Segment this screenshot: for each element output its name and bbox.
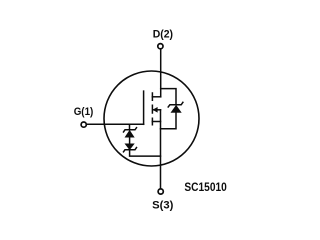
svg-text:SC15010: SC15010 [184,180,227,194]
svg-text:S(3): S(3) [152,199,174,211]
terminal D pin circle [158,44,163,49]
svg-text:G(1): G(1) [74,106,94,118]
zener diode D1 triangle [171,105,181,112]
wire clamp middle [129,137,131,144]
transistor Q1 gate bar [143,91,145,124]
transistor Q1 source stub [152,121,160,123]
zener diode D2 cathode bar [124,128,137,132]
wire gate horizontal [87,123,144,125]
transistor Q1 body stub [153,109,160,111]
wire zener bottom [161,112,177,129]
wire source vertical [160,110,162,188]
transistor Q1 drain stub [152,96,160,98]
transistor Q1 channel segments [151,93,153,125]
wire zener top branch [161,89,176,104]
svg-text:D(2): D(2) [153,28,174,40]
wire clamp bottom [130,150,161,156]
terminal S pin circle [158,189,163,194]
terminal G pin circle [81,122,86,127]
zener diode D3 cathode bar [124,148,137,152]
transistor Q1 body arrow [153,108,157,113]
device outline circle [104,71,199,166]
zener diode D3 triangle [125,144,134,150]
wire clamp top stub [129,124,131,130]
zener diode D1 cathode bar [168,102,183,107]
zener diode D2 triangle [125,130,134,137]
wire drain vertical [160,49,162,97]
